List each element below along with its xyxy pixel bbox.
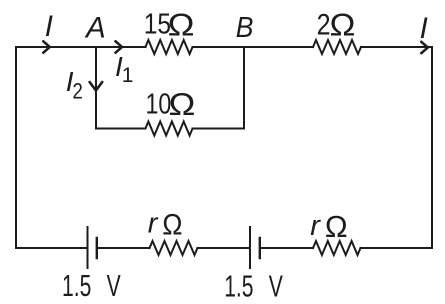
- resistor R2 2Ω symbol: [313, 40, 361, 54]
- svg-text:Ω: Ω: [325, 210, 348, 244]
- svg-text:1: 1: [122, 64, 134, 87]
- current arrow I (top right, pointing right): [421, 42, 428, 53]
- svg-text:I: I: [45, 10, 53, 43]
- current arrow I1 (after node A, pointing right): [116, 41, 123, 52]
- wire: top-right segment (2 ohm to right corner): [361, 46, 432, 48]
- wire: battery B2 to right r resistor: [260, 247, 313, 249]
- svg-text:Ω: Ω: [162, 209, 183, 242]
- svg-text:Ω: Ω: [167, 8, 195, 43]
- wire: top-left segment (left corner to 15 ohm resistor): [16, 46, 146, 48]
- current arrow I2 (on node A drop, pointing down): [90, 82, 103, 91]
- svg-text:Ω: Ω: [329, 8, 356, 43]
- wire: lower branch right segment (10 ohm to B): [193, 128, 245, 130]
- wire: battery B1 to left r resistor: [97, 247, 150, 249]
- svg-text:r: r: [310, 210, 321, 242]
- resistor r (left internal resistance) symbol: [150, 241, 198, 255]
- svg-text:1.5 V: 1.5 V: [62, 268, 121, 303]
- wire: bottom-left segment (left corner to battery B1): [16, 247, 87, 249]
- svg-text:I: I: [420, 12, 428, 45]
- svg-text:Ω: Ω: [168, 87, 196, 122]
- svg-text:2: 2: [73, 80, 83, 104]
- wire: lower branch left segment (A to 10 ohm): [96, 128, 146, 130]
- battery B2 1.5 V (long positive plate): [249, 227, 251, 268]
- wire: node A vertical drop to lower branch: [95, 47, 97, 129]
- wire: left r resistor to battery B2: [198, 247, 250, 249]
- battery B1 1.5 V (long positive plate): [87, 227, 89, 268]
- battery B2 1.5 V (short negative plate): [259, 238, 261, 258]
- wire: node B vertical drop to lower branch: [243, 47, 245, 129]
- resistor R3 10Ω symbol: [146, 122, 193, 136]
- battery B1 1.5 V (short negative plate): [96, 238, 98, 258]
- svg-text:r: r: [148, 207, 159, 239]
- current arrow I (top left, pointing right): [43, 41, 50, 52]
- svg-text:1.5 V: 1.5 V: [224, 268, 283, 303]
- wire: left side of outer loop: [15, 47, 17, 248]
- wire: right side of outer loop: [431, 47, 433, 248]
- resistor R1 15Ω symbol: [146, 40, 193, 54]
- wire: bottom-right segment (right r resistor to right corner): [361, 247, 433, 249]
- resistor r (right internal resistance) symbol: [313, 241, 361, 255]
- svg-text:A: A: [84, 11, 106, 44]
- wire: top middle segment (15 ohm to 2 ohm): [193, 46, 314, 48]
- svg-text:B: B: [236, 11, 254, 43]
